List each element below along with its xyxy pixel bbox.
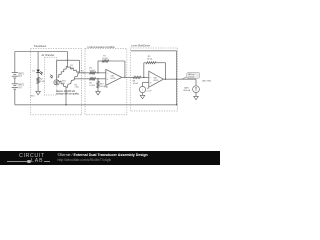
svg-text:LED VM1: LED VM1 <box>202 80 212 82</box>
wire right drop to bridge R <box>79 60 81 73</box>
resistor R4 bridge bottom-right <box>66 73 80 88</box>
wire OA2 output <box>163 78 196 80</box>
ground V3 <box>140 95 145 98</box>
svg-text:1 kΩ: 1 kΩ <box>40 81 45 83</box>
wire bridge bottom to rail <box>65 88 67 105</box>
svg-text:1 kΩ: 1 kΩ <box>75 87 80 89</box>
wire bridge lower output <box>74 78 90 80</box>
svg-text:Level Shift/Driver: Level Shift/Driver <box>131 45 150 48</box>
svg-text:10 kΩ: 10 kΩ <box>147 59 153 61</box>
LED D1 <box>36 70 40 73</box>
resistor R6 <box>90 78 96 80</box>
svg-text:10 kΩ: 10 kΩ <box>89 85 95 87</box>
wire V3 to ground <box>142 93 144 96</box>
svg-text:LM741: LM741 <box>110 78 115 80</box>
section box Transducer <box>31 48 82 114</box>
resistor R8 <box>133 76 141 78</box>
LED arrows <box>40 71 42 74</box>
voltage source V3 <box>139 86 145 92</box>
svg-text:LM741: LM741 <box>153 80 158 82</box>
resistor R9 feedback <box>146 62 156 64</box>
svg-text:10 kΩ: 10 kΩ <box>133 83 139 85</box>
resistor R5 <box>90 72 96 74</box>
wire feedback1 <box>97 72 99 74</box>
ground LED branch <box>36 91 41 94</box>
ground bias resistor <box>96 92 101 95</box>
wire bottom rail <box>15 104 177 106</box>
wire R2 to ground <box>37 84 39 92</box>
section box Air Chamber <box>45 57 57 95</box>
ammeter AM1 <box>193 86 200 93</box>
svg-text:600 μA: 600 μA <box>183 89 190 92</box>
battery BAT1 <box>12 72 18 74</box>
svg-text:Air Chamber: Air Chamber <box>42 54 55 57</box>
svg-text:BAT1: BAT1 <box>18 72 24 75</box>
svg-text:10 kΩ: 10 kΩ <box>102 58 108 60</box>
wire LED to R2 <box>37 73 39 78</box>
svg-text:−: − <box>142 91 143 93</box>
svg-text:BAT2: BAT2 <box>18 84 24 87</box>
op-amp OA2 <box>149 71 164 87</box>
svg-text:2.5 V: 2.5 V <box>147 91 152 93</box>
svg-text:9 V: 9 V <box>18 87 22 89</box>
resistor R10 bias <box>97 78 99 80</box>
svg-text:at 2.5V: at 2.5V <box>188 75 195 78</box>
LDR circle <box>54 80 59 85</box>
ground output <box>194 96 199 99</box>
callout box <box>187 72 200 78</box>
svg-text:Instrumentation Amplifier: Instrumentation Amplifier <box>88 46 116 49</box>
svg-text:10 kΩ: 10 kΩ <box>89 70 95 72</box>
svg-text:Transducer: Transducer <box>34 44 47 48</box>
wire bridge upper output <box>80 72 90 74</box>
battery BAT2 <box>12 83 18 85</box>
resistor R2 <box>37 77 39 83</box>
wire left supply <box>14 52 16 73</box>
resistor R1 bridge top-left <box>58 66 68 77</box>
section box Level Shift/Driver <box>130 48 177 111</box>
wire output to meter <box>195 79 197 86</box>
svg-text:change with air quality: change with air quality <box>56 93 80 96</box>
resistor R2b bridge top-right <box>68 66 80 73</box>
wire top rail <box>15 51 68 53</box>
wire OA1 output <box>122 76 133 78</box>
LDR light arrows <box>50 75 53 78</box>
wire bridge top bar <box>57 59 80 61</box>
op-amp OA1 <box>106 69 122 85</box>
footer title text <box>58 153 148 157</box>
wire +input to V3 <box>143 81 149 83</box>
callout leader <box>182 77 188 79</box>
wire feedback2 <box>143 77 145 79</box>
wire left drop to LDR <box>56 60 58 79</box>
svg-text:9 V: 9 V <box>18 76 22 78</box>
wire LED drop <box>37 52 39 70</box>
resistor R7 feedback <box>102 60 109 62</box>
section box Instrumentation Amplifier <box>85 48 127 114</box>
resistor R3 bridge bottom-left <box>59 80 66 87</box>
wire supply return riser <box>131 50 177 52</box>
svg-text:Resist. of LDR will: Resist. of LDR will <box>56 90 75 93</box>
wire meter to ground <box>195 93 197 97</box>
CircuitLab logo <box>19 153 45 159</box>
svg-text:GND: GND <box>30 95 35 97</box>
wire bridge feed drop <box>67 52 69 67</box>
